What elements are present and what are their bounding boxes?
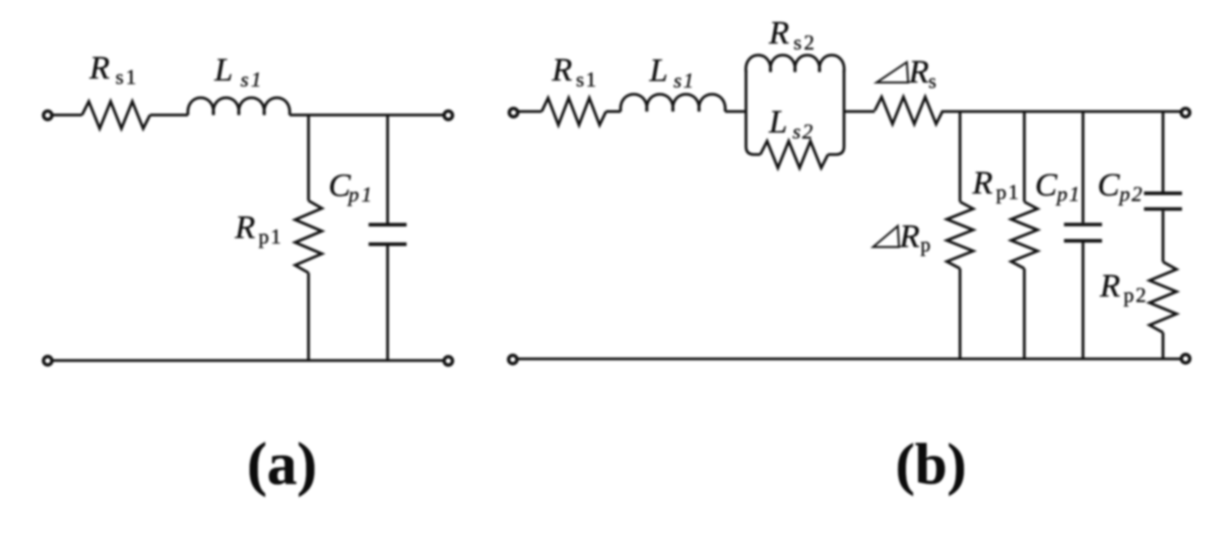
wire: circuit (a) bottom rail xyxy=(52,359,444,362)
wire: circuit (a) input lead xyxy=(52,114,82,117)
capacitor Cp1 (b) xyxy=(1064,223,1102,227)
wire: Rp2 to bottom rail xyxy=(1162,333,1165,359)
svg-text:R: R xyxy=(1099,269,1120,305)
svg-text:s1: s1 xyxy=(576,68,598,92)
svg-text:s1: s1 xyxy=(116,65,139,89)
svg-text:C: C xyxy=(1098,168,1121,204)
svg-text:(b): (b) xyxy=(896,432,967,497)
inductor-style branch Rs2 (top of tank) xyxy=(746,55,844,72)
resistor Ls2 (bottom of tank) xyxy=(760,141,828,168)
wire: Cp2/Rp2 branch upper xyxy=(1162,112,1165,192)
svg-text:p1: p1 xyxy=(347,183,375,207)
wire: circuit (a) top rail xyxy=(290,114,444,117)
wire: Rp1 to bottom rail (a) xyxy=(307,273,310,361)
svg-text:s2: s2 xyxy=(794,31,817,55)
svg-text:R: R xyxy=(768,16,789,52)
svg-text:(a): (a) xyxy=(247,431,317,497)
wire: dRp branch lower xyxy=(959,269,962,359)
resistor Rp2 xyxy=(1150,262,1177,333)
svg-text:p2: p2 xyxy=(1118,182,1144,206)
wire: capacitor branch lower (a) xyxy=(386,246,389,361)
wire: circuit (b) input lead xyxy=(518,110,542,113)
svg-text:p1: p1 xyxy=(259,225,283,249)
resistor dRp xyxy=(947,202,973,269)
wire: capacitor branch upper (a) xyxy=(386,115,389,223)
wire: tank to dRs resistor xyxy=(844,110,875,113)
node: circuit (a) shunt junction wire xyxy=(307,115,310,201)
terminal: circuit (a) bottom-left port xyxy=(44,357,52,365)
svg-text:L: L xyxy=(649,53,668,89)
wire: circuit (b) top rail xyxy=(943,110,1181,113)
wire: tank left edge xyxy=(746,70,760,155)
wire: Rs1 to Ls1 (a) xyxy=(150,114,188,117)
svg-text:C: C xyxy=(1035,168,1058,204)
wire: Rp1 branch lower (b) xyxy=(1023,269,1026,359)
svg-text:p: p xyxy=(921,235,931,257)
resistor Rs1 (b) xyxy=(542,98,606,125)
capacitor Cp2 xyxy=(1144,192,1182,196)
resistor Rs1 (a) xyxy=(82,102,150,129)
wire: Cp1 branch upper (b) xyxy=(1082,112,1085,223)
svg-text:R: R xyxy=(908,55,929,91)
wire: Cp2 to Rp2 xyxy=(1162,211,1165,262)
svg-text:p1: p1 xyxy=(1055,182,1081,206)
inductor Ls1 (b) xyxy=(621,94,726,111)
svg-text:p2: p2 xyxy=(1124,283,1148,307)
svg-text:s1: s1 xyxy=(241,68,264,92)
resistor Rp1 (b) xyxy=(1011,202,1037,269)
wire: Rp1 branch upper (b) xyxy=(1023,112,1026,202)
svg-text:R: R xyxy=(551,53,572,89)
terminal: circuit (a) bottom-right port xyxy=(444,357,452,365)
svg-text:R: R xyxy=(899,219,920,255)
svg-text:R: R xyxy=(89,51,110,87)
wire: tank right edge xyxy=(828,70,844,155)
wire: Rs1 to Ls1 (b) xyxy=(606,110,621,113)
wire: dRp branch upper xyxy=(959,112,962,202)
resistor Rp1 (a) xyxy=(295,201,322,273)
svg-text:L: L xyxy=(214,53,233,89)
resistor dRs xyxy=(875,97,943,124)
terminal: circuit (b) bottom-left port xyxy=(509,355,517,363)
label dRp: delta triangle xyxy=(873,226,899,247)
svg-text:p1: p1 xyxy=(996,180,1020,204)
capacitor Cp1 (a) xyxy=(369,223,407,227)
svg-text:R: R xyxy=(234,210,255,246)
wire: Cp1 branch lower (b) xyxy=(1082,243,1085,359)
terminal: circuit (a) top-right port xyxy=(444,111,452,119)
terminal: circuit (b) top-right port xyxy=(1181,108,1189,116)
svg-text:R: R xyxy=(972,166,993,202)
wire: Ls1 to Rs2/Ls2 tank (b) xyxy=(725,110,746,113)
svg-text:s: s xyxy=(929,71,937,93)
wire: circuit (b) bottom rail xyxy=(517,357,1181,360)
inductor Ls1 (a) xyxy=(188,98,290,115)
svg-text:s2: s2 xyxy=(793,120,815,144)
terminal: circuit (b) bottom-right port xyxy=(1181,355,1189,363)
label dRs: delta triangle xyxy=(877,62,909,82)
terminal: circuit (a) top-left port xyxy=(44,111,52,119)
svg-text:L: L xyxy=(768,105,787,141)
svg-text:s1: s1 xyxy=(674,69,696,93)
terminal: circuit (b) top-left port xyxy=(509,108,517,116)
